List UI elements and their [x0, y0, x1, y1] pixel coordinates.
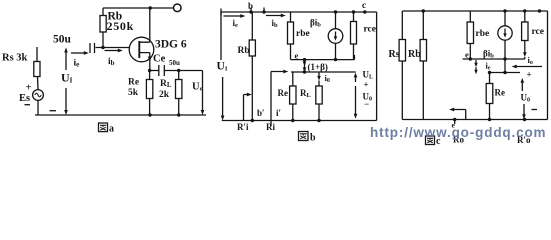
svg-text:Es: Es [19, 93, 30, 104]
svg-text:Uo: Uo [192, 82, 203, 93]
wire Rb top fig b [251, 12, 253, 40]
svg-text:Rb: Rb [238, 46, 250, 56]
svg-text:ib: ib [108, 57, 115, 67]
wire source column top [335, 12, 337, 29]
label tu-b (Chinese 图 b) [299, 132, 309, 141]
wire RL top fig b with i0 arrow [318, 72, 320, 78]
wire rce bottom [354, 44, 355, 60]
svg-text:βib: βib [310, 18, 321, 29]
wire ib arrow fig b [266, 15, 283, 17]
current source circle fig b [328, 29, 343, 44]
wire bottom rail fig a [35, 114, 206, 116]
svg-text:i0: i0 [325, 73, 330, 84]
tick left corner [220, 9, 222, 16]
wire Rb bottom fig b [251, 56, 253, 121]
svg-text:3DG 6: 3DG 6 [155, 39, 187, 51]
node lower connector [303, 70, 306, 73]
svg-text:io: io [528, 55, 533, 66]
svg-text:Re: Re [495, 88, 506, 98]
wire source column top fig c [504, 11, 506, 26]
svg-text:−: − [364, 99, 369, 109]
svg-text:i′: i′ [276, 108, 281, 118]
node Rb rail [251, 119, 254, 122]
svg-text:UI: UI [61, 71, 73, 85]
svg-text:e: e [295, 51, 299, 61]
terminal circle Ucc [174, 4, 182, 12]
svg-text:Ri: Ri [266, 122, 275, 132]
svg-text:rce: rce [364, 25, 376, 35]
wire Rb column bottom fig c [422, 61, 424, 120]
wire rce bottom with io down arrow [524, 41, 526, 55]
node Uo rail fig c [523, 118, 526, 121]
wire Uo up arrow fig b [355, 75, 357, 82]
svg-text:rbe: rbe [296, 29, 310, 39]
svg-text:b: b [248, 1, 253, 11]
svg-text:c: c [362, 0, 366, 10]
svg-text:ib: ib [272, 18, 279, 29]
node RL-rail [177, 113, 180, 116]
minus sign fig c [532, 109, 538, 111]
svg-text:UI: UI [217, 61, 228, 73]
svg-text:5k: 5k [128, 88, 139, 98]
node source bottom [334, 58, 337, 61]
source Es circle [33, 90, 44, 101]
svg-text:Rs: Rs [389, 49, 400, 60]
node Ui plus arrow [65, 50, 67, 70]
wire rbe bottom fig c [469, 44, 471, 60]
node e rail [453, 118, 456, 121]
wire RL top [178, 71, 180, 80]
svg-text:+: + [527, 70, 532, 80]
resistor rbe fig c [467, 22, 473, 44]
node c dot fig c [538, 9, 541, 12]
resistor rce fig b [351, 22, 357, 45]
wire Uo up arrow fig c [521, 81, 523, 92]
svg-text:ie: ie [74, 59, 80, 69]
wire RL bottom [178, 99, 180, 116]
wire rbe bottom [290, 44, 292, 60]
wire Re top [149, 71, 151, 80]
svg-text:Re: Re [278, 88, 289, 98]
node b dot [249, 10, 252, 13]
wire right edge fig b [376, 12, 378, 121]
node collector-top junction [149, 6, 152, 9]
wire left edge upper [220, 12, 222, 60]
svg-text:b: b [310, 133, 316, 144]
tick e rail [454, 120, 456, 125]
node rbe-e fig c [469, 57, 472, 60]
svg-text:b′: b′ [257, 108, 265, 118]
capacitor Ce [159, 65, 165, 76]
node source top fig c [503, 9, 506, 12]
resistor Re fig b [290, 86, 296, 104]
wire rbe stub fig c [469, 11, 471, 22]
node Re rail fig c [488, 118, 491, 121]
wire emitter to Ce [150, 70, 159, 72]
transistor collector [139, 8, 150, 42]
source Es sine [35, 93, 41, 96]
node Re lower fig c [488, 71, 491, 74]
marker Ro hook fig c [452, 110, 466, 120]
wire Rs top stub [36, 47, 38, 62]
node Ui minus arrow [65, 88, 67, 113]
svg-text:RL: RL [160, 79, 172, 89]
svg-text:Re: Re [128, 78, 139, 88]
wire Rs column bottom [401, 61, 403, 120]
svg-text:Rb: Rb [408, 49, 421, 60]
wire Rb top [102, 8, 104, 16]
capacitor C1 50u [90, 43, 95, 53]
wire bottom rail fig c [402, 119, 547, 121]
wire rce stub fig c [524, 11, 526, 22]
svg-text:ie: ie [486, 61, 491, 72]
svg-text:Ce: Ce [153, 54, 166, 65]
svg-text:250k: 250k [107, 19, 134, 33]
resistor Rb fig c [420, 40, 426, 62]
resistor RL fig b [316, 86, 322, 104]
current source arrow fig b [335, 32, 337, 39]
svg-text:Rs 3k: Rs 3k [2, 53, 28, 64]
wire Ce to RL and Uo [164, 70, 202, 72]
wire Ui down arrow fig b [222, 77, 224, 118]
wire lower row fig c [490, 72, 521, 74]
wire Uo down arrow fig c [523, 104, 525, 117]
node source-e fig c [503, 57, 506, 60]
wire Es to rail [37, 100, 39, 115]
wire ib arrow [105, 50, 121, 52]
wire e row [291, 59, 355, 61]
label tu-a (Chinese 图 a) [99, 123, 108, 132]
svg-text:U0: U0 [521, 93, 531, 104]
label tu-c (Chinese 图 c) [426, 136, 435, 145]
svg-text:R′i: R′i [237, 122, 249, 132]
wire rce stub [353, 12, 355, 22]
wire source column bottom [335, 43, 337, 59]
transistor emitter [139, 53, 150, 71]
wire Re top fig b [292, 72, 294, 86]
resistor Re fig c [486, 84, 493, 104]
svg-text:+: + [364, 80, 369, 90]
wire Re bottom fig b [292, 104, 294, 121]
node source lower fig c [503, 71, 506, 74]
wire Re bottom fig c [489, 104, 491, 120]
svg-text:2k: 2k [159, 90, 170, 100]
wire top rail fig a [103, 7, 174, 9]
svg-text:βib: βib [483, 49, 494, 60]
resistor Rs fig c [399, 40, 405, 62]
transistor Q1 3DG6 circle [129, 37, 154, 62]
wire Rs column top [401, 11, 403, 40]
node Re-rail [148, 113, 151, 116]
node b tick [250, 8, 252, 12]
wire Rb column top fig c [422, 11, 424, 40]
svg-text:a: a [109, 124, 114, 135]
node ib dot [262, 10, 265, 13]
transistor base bar [138, 41, 140, 58]
node emitter junction [148, 69, 151, 72]
svg-text:+: + [26, 83, 32, 94]
wire e row fig c [463, 58, 525, 60]
transistor emitter arrowhead [148, 57, 152, 62]
svg-text:ie: ie [233, 18, 239, 29]
marker R'i hook [244, 95, 250, 121]
wire Re column fig c [489, 73, 491, 84]
node rce top fig c [523, 9, 526, 12]
wire (1+b)ib connector with double arrow [304, 60, 306, 72]
wire Re bottom [149, 99, 151, 116]
wire RL bottom fig b [318, 104, 320, 121]
wire right edge fig c [547, 11, 549, 120]
minus sign Es [25, 104, 31, 106]
svg-text:rce: rce [532, 27, 544, 37]
svg-text:e: e [465, 50, 469, 60]
wire base [96, 47, 130, 49]
node RL rail fig b [317, 119, 320, 122]
wire source column through e to lower wire [504, 40, 506, 72]
resistor Rb [100, 16, 106, 33]
current source arrow fig c [504, 29, 506, 36]
wire rbe stub [290, 12, 292, 22]
wire lower row fig b [291, 71, 356, 73]
wire Uo arrow [202, 71, 204, 113]
resistor Re [146, 80, 152, 99]
wire Rs to Es [37, 77, 40, 90]
node Re rail fig b [291, 119, 294, 122]
marker Ri hook [271, 72, 286, 127]
wire input current arrow ii [71, 52, 86, 54]
wire Uo down arrow fig b [355, 86, 357, 116]
wire ii arrow fig b [224, 15, 243, 17]
resistor RL [176, 80, 182, 99]
wire Rb bottom [102, 32, 104, 48]
node Rb top fig c [422, 9, 425, 12]
node ib tick [263, 8, 265, 12]
wire ie double arrow fig c [475, 60, 477, 65]
wire io left arrow fig c [515, 66, 543, 68]
svg-text:50u: 50u [53, 34, 72, 46]
resistor rbe [288, 22, 294, 44]
svg-text:50u: 50u [169, 59, 180, 67]
wire top row fig b [221, 11, 377, 13]
wire top row fig c [402, 10, 547, 12]
svg-text:rbe: rbe [476, 29, 490, 39]
resistor Rs [34, 62, 40, 77]
resistor Rb fig b [249, 40, 255, 56]
minus sign Ui [50, 110, 57, 112]
node 1b-arrow top [303, 58, 306, 61]
svg-text:(1+β): (1+β) [308, 62, 328, 72]
wire bottom rail fig b [222, 120, 377, 122]
node base junction [101, 46, 104, 49]
svg-text:RL: RL [300, 88, 312, 99]
current source circle fig c [498, 26, 512, 40]
node RL-top [177, 69, 180, 72]
node source top [334, 10, 337, 13]
node c dot [363, 10, 366, 13]
node rce top [352, 10, 355, 13]
resistor rce fig c [522, 22, 528, 41]
svg-text:http://www.go-gddq.com: http://www.go-gddq.com [370, 125, 546, 140]
